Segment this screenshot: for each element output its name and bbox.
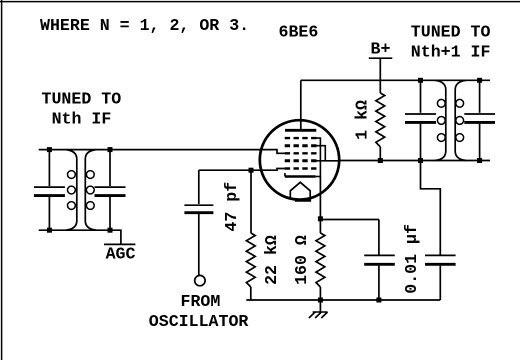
- svg-text:WHERE N = 1, 2, OR 3.: WHERE N = 1, 2, OR 3.: [40, 16, 249, 35]
- capacitor C3 plates: [184, 204, 213, 206]
- wire: ground rail: [246, 299, 440, 301]
- node: cathode junction: [318, 216, 323, 221]
- transformer T1 primary winding: [66, 150, 77, 231]
- capacitor C1 (left tank, left) lead top: [48, 150, 50, 186]
- svg-text:AGC: AGC: [106, 245, 136, 264]
- resistor R2 160 body: [316, 233, 325, 287]
- svg-text:Nth IF: Nth IF: [52, 110, 112, 129]
- node: top rail at C5: [418, 78, 423, 83]
- svg-text:160 Ω: 160 Ω: [292, 235, 311, 285]
- svg-text:47 pf: 47 pf: [222, 182, 241, 232]
- wire: cathode lead down: [319, 177, 321, 219]
- tube V1 6BE6 envelope: [260, 120, 339, 199]
- capacitor C4 plates: [364, 254, 395, 256]
- svg-text:1 kΩ: 1 kΩ: [353, 100, 372, 140]
- wire: plate lead up: [300, 80, 302, 130]
- capacitor C3 lead bottom: [198, 214, 200, 275]
- wire: 47pf branch: [199, 169, 251, 171]
- capacitor C2 (left tank, right) lead top: [109, 150, 111, 186]
- svg-text:TUNED TO: TUNED TO: [42, 90, 122, 109]
- ground stem: [319, 300, 321, 312]
- wire: C7 feed jog: [421, 161, 441, 255]
- capacitor C3 47pf lead top: [198, 170, 200, 204]
- transformer T1 secondary winding: [85, 150, 96, 231]
- node: R3 bottom junction: [378, 158, 383, 163]
- node A junction: [249, 168, 254, 173]
- wire: screen/plate bottom rail: [339, 160, 490, 162]
- wire: cathode bar to cathode lead: [316, 176, 321, 178]
- resistor R3 1k body: [376, 93, 385, 147]
- svg-text:FROM: FROM: [181, 292, 221, 311]
- capacitor C5 lead bottom: [420, 124, 422, 161]
- transformer T2 secondary winding: [455, 80, 466, 160]
- wire: AGC drop: [110, 230, 121, 244]
- capacitor C4 0.01uf lead top: [378, 220, 380, 255]
- wire: screen exit to right rail: [317, 160, 339, 162]
- wire: grid2+grid4 tie: [312, 146, 326, 161]
- wire: B+ lead down through rail to R3: [379, 58, 381, 93]
- svg-text:6BE6: 6BE6: [279, 23, 319, 42]
- svg-text:OSCILLATOR: OSCILLATOR: [149, 312, 249, 331]
- capacitor C2 plates: [95, 186, 126, 188]
- capacitor C1 lead bottom: [48, 197, 50, 230]
- oscillator input terminal: [195, 275, 205, 285]
- B+ terminal bar: [369, 57, 393, 59]
- wire: left tank bottom rail: [39, 229, 110, 231]
- node: rail junction at R2: [318, 298, 323, 303]
- tube V1 grid 2 (row 4): [285, 159, 317, 162]
- tube V1 cathode bar: [285, 175, 316, 178]
- capacitor C7 0.01uf plates: [425, 254, 456, 256]
- capacitor C6 lead bottom: [479, 124, 481, 161]
- tube V1 grid 1 (row 5): [285, 167, 317, 170]
- resistor R2 lead bottom: [319, 287, 321, 300]
- border top: [0, 1, 520, 3]
- resistor R2 160 lead top: [319, 219, 321, 233]
- border left: [1, 0, 3, 360]
- node: top rail at C6: [477, 78, 482, 83]
- tube V1 base bar: [295, 199, 311, 202]
- capacitor C6 plates: [464, 113, 495, 115]
- node: rail junction at C4: [376, 298, 381, 303]
- capacitor C5 plates: [405, 113, 436, 115]
- wire: grid1 feed from node A: [251, 169, 287, 171]
- svg-text:B+: B+: [371, 40, 391, 59]
- resistor R3 lead bottom: [379, 147, 381, 161]
- resistor R1 22k body: [246, 233, 255, 287]
- capacitor C7 lead bottom: [439, 266, 441, 300]
- capacitor C4 lead bottom: [378, 266, 380, 300]
- ground chassis symbol: [309, 312, 328, 318]
- capacitor C6 (right tank, right) lead top: [479, 80, 481, 113]
- capacitor C5 (right tank, left) lead top: [420, 80, 422, 113]
- svg-text:22 kΩ: 22 kΩ: [262, 235, 281, 285]
- tube V1 grid 3 (row 3): [285, 152, 317, 154]
- resistor R1 22k lead top: [250, 170, 252, 233]
- tube V1 grid 4 (row 2): [285, 144, 317, 147]
- AGC terminal bar: [104, 243, 135, 245]
- capacitor C2 lead bottom: [109, 197, 111, 230]
- node: bottom rail at C5: [418, 158, 423, 163]
- svg-text:TUNED TO: TUNED TO: [411, 22, 491, 41]
- wire: grid5 tie to cathode line: [317, 138, 321, 176]
- resistor R1 lead bottom: [250, 287, 252, 300]
- cathode bar left tick: [284, 173, 286, 177]
- tube V1 grid 5 (row 1): [285, 137, 317, 139]
- wire: plate top rail: [301, 79, 490, 81]
- wire: left tank top rail to tube grid 3: [39, 150, 287, 154]
- svg-text:0.01 µf: 0.01 µf: [402, 224, 421, 294]
- node: bottom rail at C6: [477, 158, 482, 163]
- node: left tank junctions: [47, 147, 52, 152]
- svg-text:Nth+1 IF: Nth+1 IF: [411, 43, 491, 62]
- tube V1 plate: [285, 129, 316, 132]
- capacitor C1 plates: [34, 186, 65, 188]
- wire: cathode junction to C4: [320, 219, 379, 221]
- transformer T2 primary winding: [435, 80, 446, 160]
- tube V1 heater: [290, 182, 310, 199]
